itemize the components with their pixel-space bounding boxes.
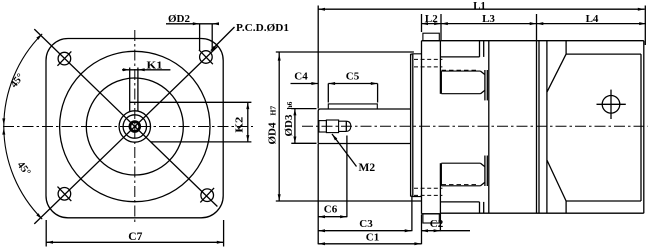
svg-text:ØD2: ØD2	[168, 13, 191, 25]
svg-text:ØD4: ØD4	[267, 122, 279, 145]
svg-text:C3: C3	[359, 218, 373, 230]
svg-text:K1: K1	[147, 59, 163, 71]
svg-text:M2: M2	[359, 162, 376, 174]
svg-text:L3: L3	[482, 13, 495, 25]
svg-text:C5: C5	[346, 71, 360, 83]
svg-text:C1: C1	[366, 231, 379, 243]
svg-text:H7: H7	[269, 106, 278, 116]
svg-text:ØD3: ØD3	[283, 114, 295, 137]
svg-text:L2: L2	[425, 13, 438, 25]
svg-text:C2: C2	[430, 218, 444, 230]
svg-text:C4: C4	[294, 71, 308, 83]
svg-text:L1: L1	[473, 0, 486, 12]
svg-text:h6: h6	[285, 101, 294, 109]
svg-text:L4: L4	[586, 13, 599, 25]
svg-text:C7: C7	[128, 231, 142, 243]
svg-text:C6: C6	[324, 204, 338, 216]
svg-text:P.C.D.ØD1: P.C.D.ØD1	[236, 22, 289, 34]
svg-text:K2: K2	[234, 116, 246, 133]
